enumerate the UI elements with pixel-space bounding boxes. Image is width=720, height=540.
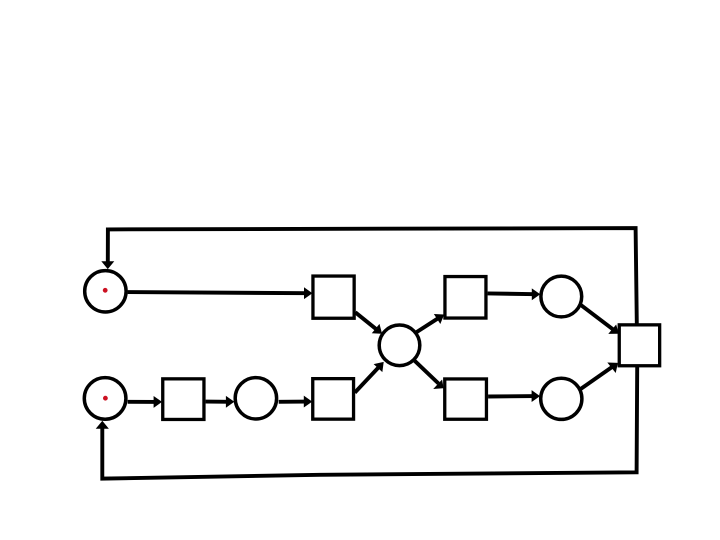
place P2 (bottom-left, marked) xyxy=(84,378,126,420)
place P1 (top-left, marked) xyxy=(85,271,126,312)
token in P2 xyxy=(103,396,108,401)
arrowhead into P1 (down) xyxy=(103,262,113,268)
wire P1 to T2 xyxy=(128,292,308,293)
wire T3 to P4 (diagonal up-right) xyxy=(355,366,380,392)
token in P1 xyxy=(103,288,108,293)
wire T6 to P1 (top feedback arc) xyxy=(108,228,637,323)
arrowhead into T2 (right) xyxy=(305,288,312,298)
wire T2 to P4 (diagonal down-right) xyxy=(355,312,377,330)
wire P3 to T3 xyxy=(279,400,308,404)
place P4 (center) xyxy=(379,325,420,366)
arrowhead into T3 (right) xyxy=(304,397,311,407)
wire T5 to P6 xyxy=(488,394,535,398)
wire T1 to P3 xyxy=(206,400,230,404)
wire T4 to P5 xyxy=(488,291,536,296)
arrowhead into P6 (right) xyxy=(532,391,539,401)
transition T6 (rightmost square) xyxy=(619,325,659,366)
place P6 (bottom-right) xyxy=(541,378,582,419)
arrowhead into P2 (up) xyxy=(97,422,108,428)
arrowhead into T6 upper-left xyxy=(610,326,618,333)
wire T6 to P2 (bottom feedback arc) xyxy=(102,367,637,479)
wire P4 to T4 (diagonal up-right) xyxy=(415,317,439,333)
transition T2 (top row first square) xyxy=(313,276,354,318)
arrowhead into T1 (right) xyxy=(154,397,161,407)
arrowhead into P4 upper-left xyxy=(373,325,381,333)
arrowhead into P4 lower-left xyxy=(375,363,383,371)
transition T3 (bottom row second square) xyxy=(313,379,354,420)
wire P5 to T6 (diagonal down-right) xyxy=(581,305,615,331)
transition T4 (top row second square) xyxy=(445,277,486,319)
arrowhead into P3 (right) xyxy=(227,397,234,407)
wire P2 to T1 xyxy=(128,400,158,404)
arrowhead into P5 (right) xyxy=(532,290,539,300)
arrowhead into T4 bottom-left xyxy=(435,315,443,323)
wire P4 to T5 (diagonal down-right) xyxy=(414,360,439,383)
wire P6 to T6 (diagonal up-right) xyxy=(581,366,614,389)
place P5 (top-right) xyxy=(541,276,582,317)
transition T1 (bottom row first square) xyxy=(163,379,204,420)
arrowhead into T6 lower-left xyxy=(609,363,618,372)
place P3 (bottom row middle-left) xyxy=(235,378,276,419)
arrowhead into T5 top-left xyxy=(435,381,443,389)
transition T5 (bottom row third square) xyxy=(445,379,487,419)
